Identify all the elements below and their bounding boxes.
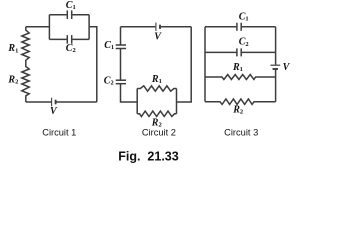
svg-text:Circuit 1: Circuit 1 [42,128,76,138]
svg-text:Circuit 3: Circuit 3 [224,128,258,138]
svg-text:Fig. 21.33: Fig. 21.33 [118,150,178,164]
svg-text:Circuit 2: Circuit 2 [142,128,176,138]
